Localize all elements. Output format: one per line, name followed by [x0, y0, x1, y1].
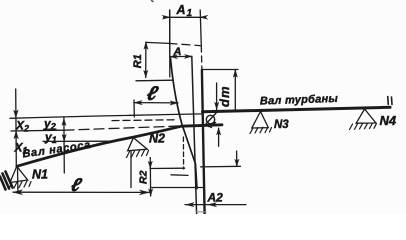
dimension dm up arrowhead — [233, 70, 237, 77]
svg-text:dm: dm — [217, 86, 232, 108]
svg-text:ℓ: ℓ — [145, 83, 161, 105]
diameter symbol squiggle — [205, 113, 217, 128]
wire horizontal reference line h1 — [10, 114, 202, 118]
support N3 triangle — [252, 112, 268, 129]
dimension R2 down arrowhead — [149, 189, 153, 196]
dimension R1 top reference dashed — [169, 43, 200, 45]
svg-text:А1: А1 — [176, 3, 193, 19]
dimension A left arrowhead — [170, 55, 178, 59]
dimension A2 left arrowhead — [186, 203, 194, 207]
wire underline Y2 — [44, 128, 57, 130]
dimension A right arrowhead — [185, 54, 193, 58]
support N2 triangle — [128, 138, 148, 151]
wire vertical v2 — [192, 57, 197, 215]
svg-text:N3: N3 — [274, 119, 289, 131]
dimension R1 top reference line — [146, 42, 169, 43]
turbine shaft — [203, 107, 391, 112]
support N4 hatching — [350, 123, 377, 130]
wire vertical v3 thick — [202, 70, 205, 214]
speck bottom line — [196, 211, 206, 213]
dimension R2 bottom reference line — [151, 187, 204, 189]
wire horizontal reference line h2 dashed part — [64, 126, 181, 130]
support N4 triangle — [356, 109, 376, 123]
dimension R2 up arrowhead — [148, 161, 152, 168]
dimension l upper line — [133, 100, 135, 117]
svg-text:y1: y1 — [44, 130, 57, 145]
offset up arrow line — [218, 128, 220, 146]
support N3 hatching — [250, 127, 272, 134]
svg-text:R1: R1 — [132, 54, 144, 68]
wire vertical v3 dashed — [200, 46, 203, 70]
wire Y dimension vertical line — [63, 117, 65, 173]
svg-text:Вал турбаны: Вал турбаны — [260, 93, 339, 108]
dimension l right arrowhead — [170, 101, 178, 105]
wire arrowhead up on X line — [14, 110, 19, 118]
dimension R1 down arrowhead — [144, 70, 148, 77]
wire small vertical with down arrowhead right of v3 — [236, 151, 238, 166]
wire vertical below N2 — [130, 151, 132, 188]
dimension l upper line — [134, 102, 178, 104]
dimension A2 right arrowhead — [208, 203, 217, 207]
wire vertical v1 — [169, 10, 171, 77]
dimension dm down arrow line — [216, 83, 218, 110]
dimension A1 left extension line — [169, 10, 171, 57]
dimension l left arrowhead — [134, 101, 142, 105]
dimension R1 bottom reference line — [136, 79, 173, 82]
dimension A1 line — [164, 16, 206, 18]
wire vertical v3 upper — [200, 10, 201, 46]
dimension A1 right arrowhead — [200, 15, 208, 19]
svg-text:N4: N4 — [380, 113, 397, 128]
wire arrowhead down on Y line — [62, 134, 66, 141]
svg-text:N2: N2 — [149, 132, 165, 146]
dimension R2 top reference line — [150, 167, 185, 169]
hatched wall at left edge — [0, 172, 13, 190]
wire left vertical dimension line X — [15, 89, 18, 165]
svg-text:R2: R2 — [138, 170, 150, 184]
svg-text:А: А — [173, 46, 182, 58]
dimension L left arrowhead — [13, 190, 23, 195]
dimension A2 line — [185, 204, 246, 206]
dimension dm down arrowhead — [215, 102, 219, 109]
dimension L line — [13, 191, 149, 193]
support N1 hatching — [9, 181, 31, 189]
wire reference line right of v3 — [201, 165, 241, 168]
svg-text:Вал насоса: Вал насоса — [22, 139, 92, 160]
pump shaft — [17, 125, 222, 167]
dimension R1 vertical line — [145, 42, 147, 78]
shaft end tick marks — [388, 97, 392, 105]
dimension dm up arrow line — [234, 70, 236, 110]
dimension R2 vertical line — [149, 158, 151, 197]
dimension A line — [170, 55, 192, 57]
speck top — [152, 1, 154, 2]
offset up arrowhead — [217, 128, 221, 135]
dimension R1 up arrowhead — [144, 42, 148, 49]
wire arrowhead up on X1 line — [14, 131, 19, 139]
svg-text:А2: А2 — [207, 190, 224, 204]
dimension R2 corner horizontal — [171, 174, 188, 177]
dimension L right arrowhead — [140, 190, 150, 195]
dimension A1 left arrowhead — [162, 15, 170, 19]
support N2 hatching — [127, 150, 149, 158]
wire horizontal reference line h1 dashed part — [112, 119, 174, 122]
dimension dm top reference line — [202, 69, 238, 71]
wire arrowhead up on Y line — [62, 119, 66, 126]
wire horizontal reference line h3 — [43, 140, 116, 142]
tilted disc line — [171, 58, 198, 189]
support N1 triangle — [10, 166, 28, 182]
dimension R2 corner dashed vertical — [182, 137, 184, 169]
wire vertical below N1 — [17, 166, 19, 193]
wire horizontal reference line h2 — [11, 129, 64, 132]
svg-text:N1: N1 — [32, 168, 48, 182]
svg-text:X2: X2 — [15, 119, 29, 134]
